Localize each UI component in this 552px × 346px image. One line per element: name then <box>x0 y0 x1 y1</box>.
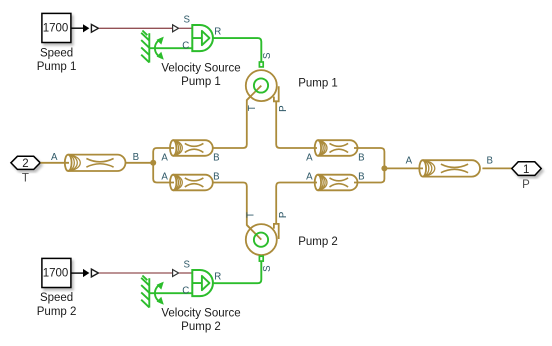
svg-text:A: A <box>51 152 58 163</box>
wire junction to long pipe right <box>384 167 423 169</box>
svg-text:B: B <box>358 172 364 183</box>
port 1 hexagon (P) <box>512 162 541 176</box>
svg-text:R: R <box>214 26 221 37</box>
svg-text:1: 1 <box>523 164 529 176</box>
wire P pump1 to pipe TR <box>276 101 317 148</box>
constant block Speed Pump 2 (value 1700) <box>42 258 71 287</box>
pump 1 body <box>246 70 279 101</box>
pump 2 body <box>246 224 279 255</box>
svg-text:Pump 1: Pump 1 <box>37 61 77 73</box>
wire C to source 1 <box>149 47 192 49</box>
svg-text:T: T <box>22 173 29 185</box>
converter triangle 1b at S port <box>173 25 179 32</box>
wire left riser junction to pipes A <box>153 148 174 183</box>
constant block Speed Pump 1 (value 1700) <box>42 13 71 42</box>
svg-text:Velocity Source: Velocity Source <box>161 307 240 319</box>
wire C to source 2 <box>149 292 192 294</box>
svg-text:Pump 1: Pump 1 <box>181 76 221 88</box>
wire long pipe right to hexagon1 <box>482 167 511 169</box>
svg-text:B: B <box>213 172 219 183</box>
long pipe left <box>65 155 126 171</box>
svg-text:B: B <box>213 152 219 163</box>
pipe bottom-right <box>315 175 358 191</box>
svg-text:S: S <box>262 265 273 272</box>
wire P pump2 to pipe BR <box>276 183 317 224</box>
wire T pump2 to pipe BL <box>214 183 262 240</box>
svg-text:Speed: Speed <box>40 47 73 59</box>
wire hexagon2 to long pipe left <box>40 162 69 164</box>
svg-text:P: P <box>278 105 289 111</box>
wire physical signal 1 <box>99 27 172 29</box>
Simulink-PS converter triangle 1a <box>91 24 98 32</box>
svg-text:A: A <box>161 172 168 183</box>
svg-text:Pump 2: Pump 2 <box>181 321 221 333</box>
label Speed Pump 2 <box>37 292 77 318</box>
svg-text:Velocity Source: Velocity Source <box>161 62 240 74</box>
long pipe right <box>419 160 480 176</box>
pipe top-right <box>315 140 358 156</box>
port 2 hexagon (T) <box>11 156 40 170</box>
wire signal from constant 1 <box>72 27 84 29</box>
svg-text:2: 2 <box>22 158 28 170</box>
wire physical signal 2 <box>99 272 172 274</box>
rotation arrow 2 <box>155 282 164 305</box>
port square S pump 1 <box>259 62 263 67</box>
wire long pipe left to junction <box>126 162 154 164</box>
label Velocity Source Pump 1 <box>161 62 240 88</box>
svg-text:R: R <box>214 271 221 282</box>
arrowhead signal 1 <box>83 24 89 32</box>
svg-text:S: S <box>184 15 191 26</box>
velocity source block 2 <box>192 270 213 296</box>
label Velocity Source Pump 2 <box>161 307 240 333</box>
pipe bottom-left <box>170 175 213 191</box>
svg-text:Speed: Speed <box>40 292 73 304</box>
svg-text:Pump 2: Pump 2 <box>37 306 77 318</box>
ground rotational reference 1 <box>141 31 149 63</box>
wire T pump1 to pipe TL <box>214 86 262 148</box>
svg-text:1700: 1700 <box>43 267 69 279</box>
wire right riser pipes B to junction <box>354 148 384 183</box>
wire S pump2 to source 2 R <box>213 261 261 283</box>
wire S segment 1 <box>179 27 192 29</box>
svg-text:A: A <box>306 172 313 183</box>
svg-text:P: P <box>522 179 530 191</box>
ground rotational reference 2 <box>141 276 149 308</box>
svg-text:S: S <box>262 52 273 59</box>
svg-text:B: B <box>486 156 492 167</box>
converter triangle 2a <box>91 269 98 277</box>
svg-text:A: A <box>306 152 313 163</box>
rotation arrow 1 <box>155 37 164 60</box>
svg-text:T: T <box>245 212 256 218</box>
svg-text:Pump 2: Pump 2 <box>298 236 338 248</box>
wire S segment 2 <box>179 272 192 274</box>
svg-text:Pump 1: Pump 1 <box>298 78 338 90</box>
label Speed Pump 1 <box>37 47 77 73</box>
velocity source block 1 (ideal angular velocity source) <box>192 25 213 51</box>
svg-text:A: A <box>161 152 168 163</box>
svg-text:C: C <box>182 286 189 297</box>
svg-text:C: C <box>182 41 189 52</box>
svg-text:B: B <box>133 152 139 163</box>
converter triangle 2b at S port <box>173 270 179 277</box>
svg-text:P: P <box>278 212 289 218</box>
junction node right <box>381 165 387 171</box>
pipe top-left <box>170 140 213 156</box>
svg-text:S: S <box>184 260 191 271</box>
arrowhead signal 2 <box>83 269 89 277</box>
port square S pump 2 <box>259 256 263 261</box>
wire signal from constant 2 <box>72 272 84 274</box>
svg-text:T: T <box>247 105 258 111</box>
svg-text:1700: 1700 <box>43 22 69 34</box>
wire R source1 to pump1 shaft <box>213 38 261 62</box>
svg-text:B: B <box>358 152 364 163</box>
svg-text:A: A <box>406 156 413 167</box>
junction node left <box>150 160 156 166</box>
